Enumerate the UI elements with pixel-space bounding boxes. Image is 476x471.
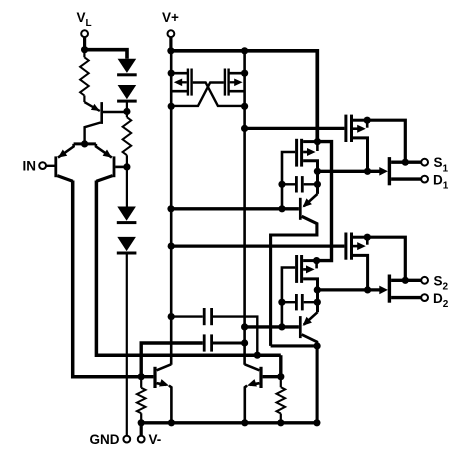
wire C4 left lead xyxy=(282,301,295,303)
wire diode chain to Q1 base node xyxy=(126,102,128,112)
wire C2 right lead xyxy=(213,342,245,345)
wire M6 gate lead xyxy=(282,268,295,327)
wire M1 gate cross-coupling xyxy=(193,83,245,106)
node C3 right junction xyxy=(314,181,321,188)
terminal V- xyxy=(138,436,145,443)
wire C1 left lead xyxy=(171,315,203,317)
transistor Q6 collector xyxy=(245,364,260,370)
transistor M2 drain stub xyxy=(229,72,245,75)
diode D1 xyxy=(118,59,137,73)
wire Q4 collector drop to rail xyxy=(316,346,319,423)
node M5 gate line / line A junction xyxy=(168,243,175,250)
transistor M1 drain stub xyxy=(171,72,188,75)
transistor Q1 emitter xyxy=(84,102,99,111)
transistor Q1 base bar xyxy=(100,102,103,124)
wire M5 gate line xyxy=(171,244,344,247)
wire emitter rail xyxy=(74,142,96,145)
node base line / M4 gate junction xyxy=(278,205,285,212)
wire diode chain to GND xyxy=(126,254,128,436)
capacitor C2 xyxy=(203,334,206,351)
transistor Q3 emitter xyxy=(304,194,318,206)
wire Q3 base line xyxy=(171,207,299,210)
node rail / Q4 collector junction xyxy=(313,419,320,426)
transistor M4 bars xyxy=(295,139,298,167)
transistor M3 source stub xyxy=(353,138,368,171)
transistor M2 body arrow xyxy=(230,81,239,83)
wire C3 right lead xyxy=(304,183,318,185)
wire chain lead xyxy=(126,112,128,118)
transistor Q2a collector xyxy=(57,176,72,182)
wire VL to diode chain xyxy=(85,50,127,59)
transistor M4 drain stub xyxy=(303,140,317,143)
node V+ junction xyxy=(167,47,174,54)
svg-text:GND: GND xyxy=(90,432,120,447)
wire M5 drain to switch SW2 source xyxy=(367,237,405,280)
node R3 / V- rail junction xyxy=(138,419,145,426)
terminal V+ xyxy=(168,30,175,37)
transistor M6 bars xyxy=(295,255,298,283)
transistor M5 bars xyxy=(344,233,347,260)
transistor Q3 collector xyxy=(271,216,317,346)
wire M4 gate lead xyxy=(282,152,295,209)
terminal S2 xyxy=(421,277,428,284)
wire M4 feed to M6 xyxy=(317,142,332,261)
transistor M2 source stub xyxy=(229,90,245,93)
node C1 drop junction xyxy=(254,352,261,359)
terminal D2 xyxy=(421,294,428,301)
node base line / M6 gate junction xyxy=(278,323,285,330)
transistor Q5 collector xyxy=(157,364,172,370)
transistor M6 drain stub xyxy=(303,259,317,262)
transistor M1 bars xyxy=(190,69,192,96)
node C3 left junction xyxy=(278,181,285,188)
wire M6 body stub xyxy=(315,261,318,269)
node VL junction xyxy=(81,46,88,53)
transistor M2 bars xyxy=(224,69,226,96)
transistor M3 body arrow xyxy=(353,127,361,130)
diode D2 xyxy=(118,85,137,99)
transistor SW1 gate bar xyxy=(388,157,391,185)
wire SW2 gate drive line xyxy=(317,288,380,291)
resistor R2 xyxy=(123,117,132,155)
terminal VL xyxy=(81,30,88,37)
node C2 / line B junction xyxy=(241,339,248,346)
node collector bus junction xyxy=(314,342,321,349)
node C4 right junction xyxy=(314,299,321,306)
node M1 source junction xyxy=(168,103,175,110)
wire M3 gate line xyxy=(245,127,345,130)
wire Q2b collector drop xyxy=(96,181,280,356)
resistor R3 xyxy=(137,388,146,413)
wire Q2b base lead xyxy=(115,166,127,169)
svg-text:IN: IN xyxy=(23,159,37,174)
wire C3 left lead xyxy=(282,183,295,185)
resistor R4 xyxy=(277,387,286,413)
wire Q2a collector drop xyxy=(73,181,142,377)
wire Q6 base node drop xyxy=(279,355,282,377)
node Q6 base junction xyxy=(277,373,284,380)
wire SW1 source lead xyxy=(391,160,421,163)
wire SW1 gate arrow xyxy=(379,167,388,176)
svg-text:V+: V+ xyxy=(162,10,179,25)
wire R1 bottom lead xyxy=(83,96,85,103)
node M5 drain junction xyxy=(364,234,371,241)
wire M3 drain to switch SW1 source xyxy=(367,120,405,162)
transistor Q5 emitter xyxy=(157,383,166,385)
node M2 source junction xyxy=(241,103,248,110)
wire M3 body stub xyxy=(366,120,369,128)
wire Q4 base line xyxy=(245,325,299,328)
transistor SW2 gate bar xyxy=(388,275,391,303)
resistor R1 xyxy=(80,57,89,95)
transistor Q2a emitter xyxy=(58,144,74,158)
node drive line / M3 source junction xyxy=(364,168,371,175)
node Q5 base junction xyxy=(138,373,145,380)
transistor Q4 collector xyxy=(302,335,317,346)
wire line A lower xyxy=(170,208,173,364)
node Q1 base / diode junction xyxy=(123,108,130,115)
node emitter rail junction xyxy=(81,140,88,147)
transistor M6 source stub xyxy=(303,279,317,312)
transistor M4 body arrow xyxy=(303,151,310,154)
transistor Q2b base bar xyxy=(113,156,116,177)
transistor Q2b collector xyxy=(96,176,112,182)
node base line / line B junction xyxy=(241,323,248,330)
node Q6 emitter / rail junction xyxy=(241,419,248,426)
wire V- terminal drop xyxy=(140,423,143,436)
wire C1 right lead xyxy=(213,317,257,356)
diode D4 xyxy=(117,237,136,251)
transistor M5 drain stub xyxy=(353,236,367,239)
terminal S1 xyxy=(421,159,428,166)
terminal GND xyxy=(123,436,130,443)
transistor M5 source stub xyxy=(353,255,368,290)
node V+ rail / line B junction xyxy=(241,47,248,54)
node base line / line A junction xyxy=(167,205,174,212)
wire C4 right lead xyxy=(304,301,318,303)
node M1 drain junction xyxy=(168,70,175,77)
terminal IN xyxy=(39,162,46,169)
node SW1 source junction xyxy=(402,159,409,166)
node M3 gate line junction xyxy=(241,125,248,132)
capacitor C4 xyxy=(295,294,298,310)
wire R1 top lead xyxy=(83,50,85,58)
transistor M6 body arrow xyxy=(303,268,310,271)
transistor M3 bars xyxy=(344,115,347,142)
transistor Q6 base bar xyxy=(259,367,262,388)
transistor M5 body arrow xyxy=(353,245,361,248)
transistor M4 source stub xyxy=(303,161,317,194)
capacitor C3 xyxy=(295,176,298,192)
wire V+ rail xyxy=(171,51,317,142)
wire Q6 base lead xyxy=(263,375,281,378)
node C4 left junction xyxy=(278,299,285,306)
node Q5 emitter / rail junction xyxy=(168,419,175,426)
node M2 drain junction xyxy=(241,70,248,77)
node Q2b base junction xyxy=(123,163,130,170)
transistor M1 body arrow xyxy=(178,81,187,83)
transistor Q2a base bar xyxy=(54,156,57,177)
node M6 drain junction xyxy=(313,257,320,264)
transistor Q6 emitter xyxy=(250,383,259,385)
wire collector bus to V- side xyxy=(271,344,318,347)
node R4 / V- rail junction xyxy=(277,419,284,426)
diode D3 xyxy=(117,207,136,221)
transistor Q3 base bar xyxy=(299,198,302,220)
transistor Q2b emitter xyxy=(96,144,112,158)
wire Q1 base lead xyxy=(103,111,127,114)
wire M5 body stub xyxy=(366,237,369,245)
wire C2 left lead xyxy=(141,343,203,377)
wire SW1 gate drive line xyxy=(317,170,380,173)
wire SW2 gate arrow xyxy=(379,286,388,295)
wire R2 bottom lead xyxy=(126,155,128,167)
svg-text:V-: V- xyxy=(149,432,162,447)
wire M2 gate cross-coupling xyxy=(171,83,224,106)
node M3 drain junction xyxy=(364,117,371,124)
wire line B upper xyxy=(243,51,246,209)
node C1 / line A junction xyxy=(168,313,175,320)
transistor Q1 collector xyxy=(85,123,101,144)
transistor Q4 base bar xyxy=(299,316,302,338)
node M4 drain junction xyxy=(314,138,321,145)
wire V- rail xyxy=(141,421,317,424)
capacitor C1 xyxy=(203,308,206,325)
wire SW1 drain lead xyxy=(391,177,421,180)
wire Q5 base lead xyxy=(141,375,153,378)
wire SW2 drain lead xyxy=(391,296,421,299)
node SW2 source junction xyxy=(402,277,409,284)
transistor Q4 emitter xyxy=(304,312,318,324)
transistor M1 source stub xyxy=(172,90,188,93)
wire chain to D3 xyxy=(126,167,128,207)
transistor Q5 base bar xyxy=(153,367,156,388)
node drive line / M5 source junction xyxy=(364,286,371,293)
wire line B lower xyxy=(243,208,246,364)
wire M4 body stub xyxy=(316,142,319,151)
wire line A upper xyxy=(170,51,173,209)
wire SW2 source lead xyxy=(391,279,421,282)
node drive line / M6 source junction xyxy=(314,286,321,293)
node drive line / M4 source junction xyxy=(314,168,321,175)
terminal D1 xyxy=(421,176,428,183)
transistor M3 drain stub xyxy=(353,119,367,122)
